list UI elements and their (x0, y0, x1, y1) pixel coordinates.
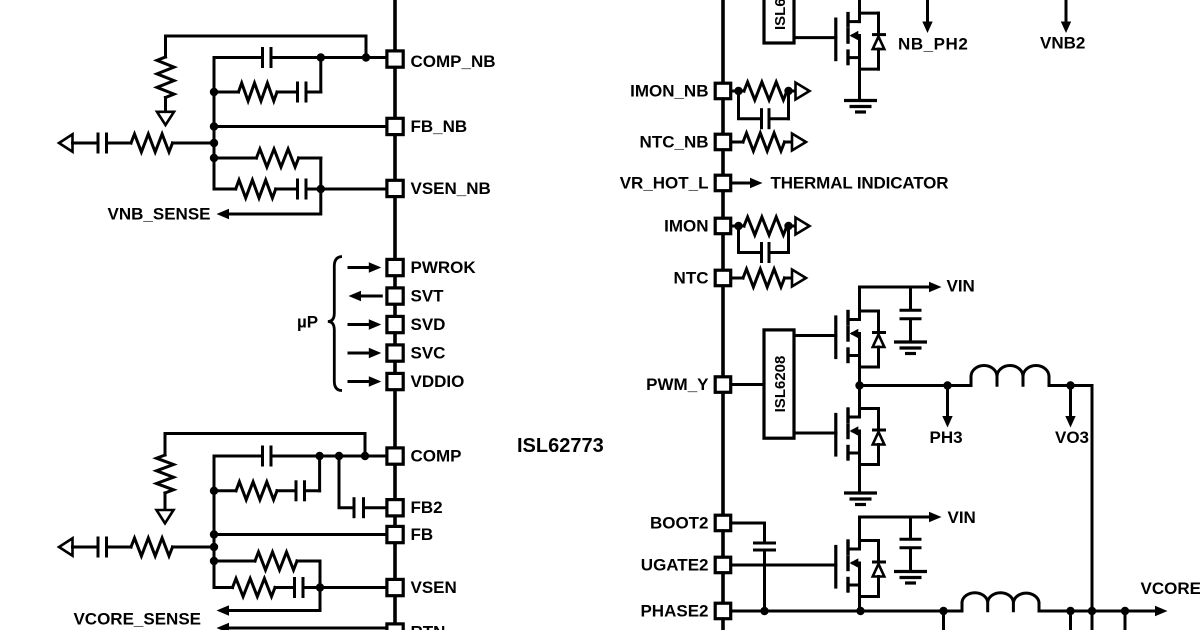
wire C11 parallel branch (739, 226, 761, 253)
wire R13 to arrow (787, 225, 796, 228)
capacitor C3 (input series) (97, 133, 100, 154)
wire FB2 drop and run (339, 456, 353, 508)
transistor Q4 (phase-2 high-side) body diode (860, 539, 879, 542)
wire VR_HOT_L lead (732, 182, 752, 185)
svg-text:FB_NB: FB_NB (411, 117, 468, 136)
inductor L3 (971, 366, 1049, 387)
wire BOOT2 lead (732, 523, 765, 542)
node IMON_NB left (734, 87, 742, 95)
pin VSEN_NB (387, 180, 403, 196)
svg-text:RTN: RTN (411, 623, 446, 630)
transistor Q2 (phase-3 high-side) channel segments (846, 312, 849, 325)
transistor Q2 (phase-3 high-side) body diode (860, 310, 879, 313)
arrow off-page (open, right) IMON (796, 218, 810, 235)
pin PWM_Y (715, 377, 731, 393)
resistor R14 (NTC) (743, 269, 785, 287)
pin NTC (715, 270, 731, 286)
wire U3 upper gate (796, 334, 836, 337)
wire C13 to PHASE2 rail (763, 552, 766, 612)
arrow into SVD (349, 323, 370, 326)
wire output cap 3 drop (1124, 611, 1127, 630)
arrow VIN phase2 (solid, right) (929, 512, 942, 522)
resistor R2 (239, 83, 278, 101)
svg-text:IMON_NB: IMON_NB (630, 82, 708, 101)
wire R8 to bus (173, 546, 215, 549)
capacitor C2 (296, 82, 299, 103)
wire VCORE_SENSE run (229, 588, 320, 611)
resistor R6 (vertical) (157, 455, 174, 493)
capacitor C7 (FB2 series) (353, 497, 356, 518)
capacitor C13 (bootstrap) (753, 542, 776, 545)
inductor L2 (962, 593, 1039, 613)
wire R6 bottom lead (164, 493, 167, 510)
arrow off-page (open, right) NTC_NB (792, 134, 806, 151)
node bootstrap on rail (760, 607, 768, 615)
pin BOOT2 (715, 515, 731, 531)
svg-text:BOOT2: BOOT2 (650, 514, 709, 533)
wire output cap 1 drop (942, 611, 945, 630)
node at C6/COMP junction (315, 452, 323, 460)
pin VR_HOT_L (715, 175, 731, 191)
wire R1 bottom lead (164, 98, 167, 112)
capacitor C4 (296, 179, 299, 200)
node input chain on bus (210, 139, 218, 147)
wire C8 to R8 (108, 546, 131, 549)
arrow VCORE_SENSE (solid, left) (217, 605, 230, 615)
arrow VO3 (down) (1069, 386, 1072, 418)
wire R2 to C2 (277, 91, 296, 94)
ground at Q1 source (844, 99, 877, 102)
ground at C14 (894, 570, 927, 573)
wire C3 to R3 (108, 142, 131, 145)
wire R9 branch (214, 560, 255, 563)
arrow out of SVT (349, 291, 362, 301)
node VO3 tap (1066, 381, 1074, 389)
transistor Q4 (phase-2 high-side) source stub and source lead (848, 584, 860, 587)
brace for uP pins (328, 257, 342, 391)
arrow VIN (solid, right) (929, 282, 942, 292)
wire C6 up to COMP node (305, 489, 320, 492)
wire VNB_SENSE run (229, 189, 321, 214)
pin FB_NB (387, 118, 403, 134)
svg-text:ISL6208: ISL6208 (772, 356, 789, 413)
node FB_NB on bus (210, 122, 218, 130)
wire COMP top feedback run (165, 434, 365, 457)
svg-text:PH3: PH3 (930, 428, 963, 447)
wire C9 to VSEN pin (303, 586, 386, 589)
wire RTN run (229, 627, 386, 630)
svg-text:THERMAL INDICATOR: THERMAL INDICATOR (771, 174, 949, 193)
svg-text:COMP: COMP (411, 447, 462, 466)
pin IMON_NB (715, 83, 731, 99)
resistor R4 (VSEN_NB upper) (256, 149, 298, 167)
wire arrow to C8 (73, 546, 97, 549)
transistor Q3 (phase-3 low-side) drain stub and drain lead (848, 416, 860, 419)
svg-text:VIN: VIN (948, 508, 976, 527)
arrow VNB2 (down) (1065, 0, 1068, 22)
arrow into SVC (349, 352, 370, 355)
wire NTC pin lead (732, 277, 744, 280)
wire arrow to C3 (73, 142, 97, 145)
node bus left (bottom network) vertical (213, 456, 216, 588)
node VSEN junction (316, 583, 324, 591)
pin IMON (715, 218, 731, 234)
pin COMP (387, 448, 403, 464)
resistor R3 (input series) (131, 134, 173, 152)
wire COMP_NB pin run (214, 56, 261, 59)
wire C5 to COMP pin (273, 455, 386, 458)
pin SVD (387, 316, 403, 332)
svg-text:VCORE_SENSE: VCORE_SENSE (73, 610, 201, 629)
svg-text:NB_PH2: NB_PH2 (898, 35, 968, 54)
svg-text:ISL6208: ISL6208 (772, 0, 789, 30)
transistor Q1 (NB high-side) body diode (860, 12, 879, 15)
wire R2-C2 branch (214, 91, 239, 94)
wire VCORE rail (1039, 610, 1156, 613)
transistor Q1 (NB high-side) channel segments (846, 14, 849, 27)
arrow off-page (open, right) IMON_NB (796, 83, 810, 100)
node R7 branch on bus (210, 487, 218, 495)
node IMON right (784, 222, 792, 230)
wire from top run to resistor R1 (164, 36, 167, 57)
transistor Q1 (NB high-side) body arrow (853, 34, 860, 37)
capacitor C9 (293, 577, 296, 598)
node at C2/COMP_NB junction (317, 53, 325, 61)
wire VO3 drop to VCORE rail (1091, 386, 1094, 630)
wire R4 branch (214, 157, 256, 160)
transistor Q2 (phase-3 high-side) body arrow (853, 332, 860, 335)
wire VIN rail (phase 2) (860, 516, 930, 519)
wire R7 to C6 (277, 489, 295, 492)
pin RTN (387, 624, 403, 630)
svg-text:SVT: SVT (411, 287, 445, 306)
svg-text:FB: FB (411, 525, 434, 544)
node R9 branch on bus (210, 557, 218, 565)
pin NTC_NB (715, 134, 731, 150)
capacitor C1 (COMP_NB branch) (261, 47, 264, 68)
svg-text:FB2: FB2 (411, 498, 443, 517)
resistor R10 (VSEN lower) (233, 579, 276, 597)
capacitor C11 (IMON filter) (760, 242, 763, 263)
pin FB2 (387, 500, 403, 516)
node Q4 source on rail (856, 607, 864, 615)
transistor Q1 (NB high-side) gate bar (834, 19, 837, 60)
svg-text:VO3: VO3 (1055, 428, 1089, 447)
svg-text:NTC: NTC (674, 269, 709, 288)
node phase-3 at Q2 source (855, 381, 863, 389)
resistor R7 (236, 482, 277, 500)
node VO3 join on VCORE rail (1088, 607, 1096, 615)
pin PWROK (387, 259, 403, 275)
wire R14 to arrow (785, 277, 793, 280)
transistor Q2 (phase-3 high-side) gate bar (834, 317, 837, 358)
wire C2 up to COMP_NB node (306, 91, 321, 94)
wire C4 to VSEN_NB pin (306, 188, 386, 191)
transistor Q1 (NB high-side) drain stub and drain lead (848, 20, 860, 23)
node IMON_NB right (784, 87, 792, 95)
wire UGATE2 to Q4 gate (732, 564, 836, 567)
capacitor C14 (VIN decoupling) (900, 538, 922, 541)
arrow off-page (open, down) below R6 (157, 510, 174, 523)
wire C12 top lead (909, 287, 912, 309)
transistor Q4 (phase-2 high-side) body arrow (853, 562, 860, 565)
wire PHASE2 rail (732, 610, 963, 613)
arrow into PWROK (349, 266, 370, 269)
transistor Q4 (phase-2 high-side) gate bar (834, 547, 837, 588)
svg-text:PHASE2: PHASE2 (640, 602, 708, 621)
svg-text:VSEN: VSEN (411, 578, 457, 597)
svg-text:VSEN_NB: VSEN_NB (411, 179, 491, 198)
IC ISL62773 right boundary line (721, 0, 725, 630)
resistor R5 (VSEN_NB lower) (236, 180, 276, 198)
wire NTC_NB pin lead (732, 141, 744, 144)
arrow into VDDIO (349, 380, 370, 383)
capacitor C6 (295, 480, 298, 501)
svg-text:SVC: SVC (411, 344, 446, 363)
wire R9 to corner (297, 560, 320, 563)
wire C1 to COMP_NB pin (273, 56, 386, 59)
svg-text:SVD: SVD (411, 315, 446, 334)
wire C14 bottom lead (909, 549, 912, 571)
svg-text:VIN: VIN (947, 277, 975, 296)
svg-text:IMON: IMON (664, 217, 708, 236)
driver U3 ISL6208 (764, 330, 794, 438)
svg-text:VNB_SENSE: VNB_SENSE (108, 205, 211, 224)
wire R4 to corner (299, 157, 321, 160)
svg-text:NTC_NB: NTC_NB (640, 133, 709, 152)
transistor Q3 (phase-3 low-side) gate bar (834, 415, 837, 456)
capacitor C10 (IMON_NB filter) (760, 108, 763, 129)
wire IMON_NB pin lead (732, 90, 745, 93)
arrow NB_PH2 (down) (926, 0, 929, 22)
ground at Q3 source (844, 491, 877, 494)
pin COMP_NB (387, 51, 403, 67)
node input chain on bus (210, 543, 218, 551)
transistor Q3 (phase-3 low-side) channel segments (846, 409, 849, 422)
wire C12 bottom lead (909, 320, 912, 341)
arrow VCORE (solid, right) (1155, 606, 1168, 616)
wire output cap 2 drop (1069, 611, 1072, 630)
arrow RTN (solid, left) (217, 623, 230, 630)
wire COMP pin run (214, 455, 261, 458)
svg-text:VNB2: VNB2 (1040, 34, 1085, 53)
wire VIN rail (phase 3) (860, 286, 930, 289)
node bus left (top network) vertical (213, 58, 216, 190)
transistor Q4 (phase-2 high-side) drain stub and drain lead (848, 548, 860, 551)
pin SVC (387, 345, 403, 361)
resistor R13 (IMON) (744, 217, 787, 235)
resistor R9 (VSEN upper) (255, 552, 297, 570)
driver U2 ISL6208 (NB, cropped) (764, 0, 794, 43)
wire R11 to arrow (787, 90, 796, 93)
node R2 branch on bus (210, 88, 218, 96)
capacitor C12 (VIN decoupling) (900, 309, 922, 312)
pin UGATE2 (715, 557, 731, 573)
svg-text:µP: µP (297, 313, 318, 332)
transistor Q3 (phase-3 low-side) body arrow (853, 430, 860, 433)
transistor Q3 (phase-3 low-side) source stub and source lead (848, 452, 860, 455)
svg-text:VR_HOT_L: VR_HOT_L (620, 174, 709, 193)
wire from top run to resistor R6 (164, 434, 167, 456)
node VSEN_NB junction (317, 185, 325, 193)
wire R10 to C9 (275, 586, 293, 589)
arrow off-page (open, left) VCORE input (59, 538, 73, 555)
wire FB pin run (214, 533, 386, 536)
arrow off-page (open, down) below R1 (157, 112, 174, 125)
arrow VNB_SENSE (solid, left) (217, 209, 230, 219)
wire C7 to FB2 pin (365, 506, 386, 509)
node at top-run/COMP junction (361, 452, 369, 460)
arrow off-page (open, left) VNB input (59, 134, 73, 151)
capacitor C8 (input series) (97, 537, 100, 558)
wire COMP_NB top feedback run (166, 36, 367, 58)
pin VSEN (387, 579, 403, 595)
wire R3 to bus (173, 142, 215, 145)
wire C10 parallel branch (739, 91, 761, 119)
svg-text:PWROK: PWROK (411, 258, 477, 277)
ground at C12 (894, 340, 927, 343)
wire R12 to arrow (785, 141, 793, 144)
node PH3 tap (943, 381, 951, 389)
resistor R11 (IMON_NB) (744, 82, 787, 100)
pin SVT (387, 288, 403, 304)
node at top-run/COMP_NB junction (362, 53, 370, 61)
arrow off-page (open, right) NTC (792, 270, 806, 287)
wire PWM_Y pin to driver (732, 383, 763, 386)
node at FB2 drop on COMP run (335, 452, 343, 460)
node R4 branch on bus (210, 154, 218, 162)
node output cap tap 3 (1121, 607, 1129, 615)
resistor R8 (input series) (131, 538, 173, 556)
wire U3 lower gate (796, 432, 836, 435)
pin PHASE2 (715, 603, 731, 619)
node FB on bus (210, 530, 218, 538)
transistor Q3 (phase-3 low-side) body diode (860, 407, 879, 410)
resistor R1 (vertical, COMP_NB to sense) (157, 57, 174, 98)
wire phase-3 node (860, 384, 972, 387)
transistor Q2 (phase-3 high-side) drain stub and drain lead (848, 318, 860, 321)
node IMON left (734, 222, 742, 230)
wire C14 top lead (909, 517, 912, 538)
pin VDDIO (387, 373, 403, 389)
pin FB (387, 526, 403, 542)
svg-text:UGATE2: UGATE2 (641, 556, 709, 575)
transistor Q4 (phase-2 high-side) channel segments (846, 541, 849, 554)
wire R5 branch (214, 188, 236, 191)
svg-text:PWM_Y: PWM_Y (646, 375, 709, 394)
arrow PH3 (down) (946, 386, 949, 418)
resistor R12 (NTC_NB) (743, 133, 785, 151)
wire FB_NB pin run (214, 125, 386, 128)
transistor Q1 (NB high-side) source stub and source lead (848, 56, 860, 59)
IC ISL62773 left boundary line (393, 0, 397, 630)
wire U2 to Q1 gate (796, 36, 836, 39)
wire R5 to C4 (276, 188, 296, 191)
wire L3 to VCORE drop (1049, 384, 1092, 387)
svg-text:COMP_NB: COMP_NB (411, 52, 496, 71)
wire IMON pin lead (732, 225, 745, 228)
capacitor C5 (COMP branch) (261, 446, 264, 467)
svg-text:VCORE: VCORE (1141, 579, 1200, 598)
wire R10 branch (214, 586, 233, 589)
svg-text:VDDIO: VDDIO (411, 372, 465, 391)
wire R7-C6 branch (214, 489, 236, 492)
node output cap tap 2 (1066, 607, 1074, 615)
node output cap tap 1 (939, 607, 947, 615)
svg-text:ISL62773: ISL62773 (517, 435, 604, 457)
transistor Q2 (phase-3 high-side) source stub and source lead (848, 354, 860, 357)
arrow VR_HOT_L (solid, right) (750, 178, 763, 188)
